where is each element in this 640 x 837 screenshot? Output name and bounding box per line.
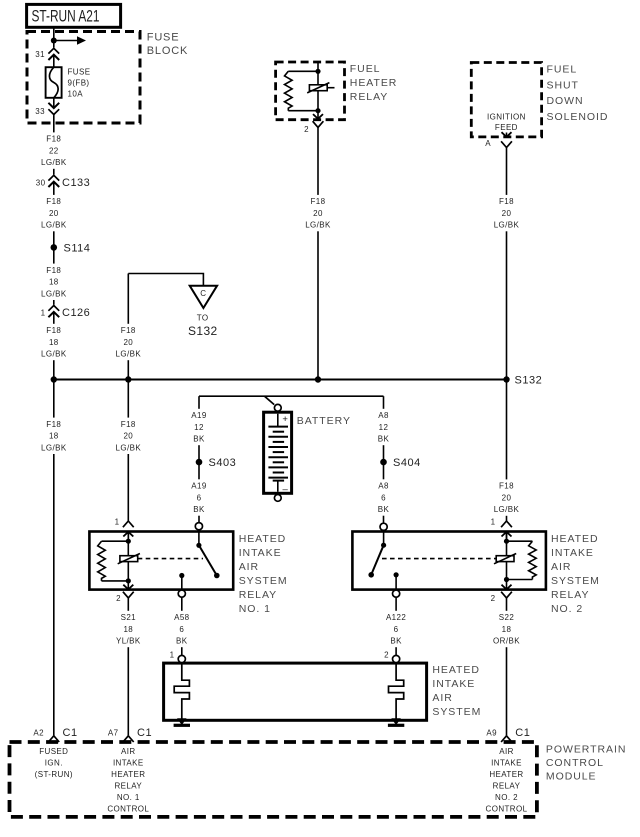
svg-text:S132: S132 xyxy=(515,375,543,387)
svg-text:C126: C126 xyxy=(62,307,90,319)
svg-text:20: 20 xyxy=(313,209,323,218)
svg-text:A: A xyxy=(485,139,491,148)
svg-text:A58: A58 xyxy=(174,613,190,622)
svg-text:LG/BK: LG/BK xyxy=(116,443,142,452)
svg-text:A7: A7 xyxy=(108,728,119,737)
svg-text:18: 18 xyxy=(49,278,59,287)
svg-text:FUEL: FUEL xyxy=(547,63,578,75)
svg-text:HEATER: HEATER xyxy=(489,770,523,779)
svg-text:MODULE: MODULE xyxy=(546,771,597,783)
svg-text:FUSED: FUSED xyxy=(39,747,68,756)
svg-text:20: 20 xyxy=(49,209,59,218)
svg-text:A19: A19 xyxy=(191,411,207,420)
svg-text:6: 6 xyxy=(197,493,202,502)
svg-text:C133: C133 xyxy=(62,177,90,189)
svg-text:ST-RUN A21: ST-RUN A21 xyxy=(32,7,100,26)
svg-text:18: 18 xyxy=(123,625,133,634)
svg-text:LG/BK: LG/BK xyxy=(41,221,67,230)
svg-text:TO: TO xyxy=(197,314,209,323)
svg-text:1: 1 xyxy=(170,650,175,659)
svg-text:9(FB): 9(FB) xyxy=(68,79,90,88)
svg-text:2: 2 xyxy=(384,650,389,659)
svg-text:CONTROL: CONTROL xyxy=(107,804,149,813)
svg-text:LG/BK: LG/BK xyxy=(41,443,67,452)
svg-text:LG/BK: LG/BK xyxy=(494,221,520,230)
svg-text:SYSTEM: SYSTEM xyxy=(432,706,481,718)
svg-text:20: 20 xyxy=(502,493,512,502)
svg-text:INTAKE: INTAKE xyxy=(432,678,475,690)
svg-text:S403: S403 xyxy=(209,457,237,469)
svg-text:BK: BK xyxy=(193,505,205,514)
svg-text:A8: A8 xyxy=(378,482,389,491)
svg-text:SOLENOID: SOLENOID xyxy=(547,111,609,123)
svg-text:INTAKE: INTAKE xyxy=(551,547,594,559)
svg-text:A2: A2 xyxy=(33,728,44,737)
svg-text:HEATED: HEATED xyxy=(239,533,287,545)
svg-text:IGN.: IGN. xyxy=(45,758,63,767)
svg-text:AIR: AIR xyxy=(239,561,259,573)
svg-text:2: 2 xyxy=(116,594,121,603)
svg-text:18: 18 xyxy=(49,338,59,347)
svg-text:OR/BK: OR/BK xyxy=(493,637,520,646)
svg-text:YL/BK: YL/BK xyxy=(116,637,141,646)
svg-text:BK: BK xyxy=(390,637,402,646)
svg-text:LG/BK: LG/BK xyxy=(305,221,331,230)
svg-text:F18: F18 xyxy=(46,197,61,206)
svg-text:22: 22 xyxy=(49,146,59,155)
svg-text:HEATED: HEATED xyxy=(551,533,599,545)
svg-text:(ST-RUN): (ST-RUN) xyxy=(35,770,73,779)
svg-text:HEATED: HEATED xyxy=(432,664,480,676)
svg-text:6: 6 xyxy=(381,493,386,502)
svg-text:C: C xyxy=(200,289,206,298)
svg-text:C1: C1 xyxy=(515,727,530,739)
svg-text:10A: 10A xyxy=(68,89,84,98)
svg-text:LG/BK: LG/BK xyxy=(494,505,520,514)
svg-text:BATTERY: BATTERY xyxy=(297,415,351,427)
svg-text:DOWN: DOWN xyxy=(547,95,584,107)
svg-text:HEATER: HEATER xyxy=(111,770,145,779)
svg-text:2: 2 xyxy=(491,594,496,603)
svg-text:F18: F18 xyxy=(46,135,61,144)
svg-text:A122: A122 xyxy=(386,613,406,622)
svg-text:6: 6 xyxy=(179,625,184,634)
svg-text:A19: A19 xyxy=(191,482,207,491)
svg-text:12: 12 xyxy=(379,423,389,432)
svg-text:NO. 1: NO. 1 xyxy=(117,793,140,802)
svg-text:RELAY: RELAY xyxy=(114,781,142,790)
svg-text:BK: BK xyxy=(193,435,205,444)
svg-text:F18: F18 xyxy=(46,420,61,429)
svg-text:NO. 2: NO. 2 xyxy=(551,603,583,615)
svg-text:18: 18 xyxy=(502,625,512,634)
svg-text:–: – xyxy=(283,484,289,495)
svg-text:AIR: AIR xyxy=(432,692,452,704)
svg-text:A8: A8 xyxy=(378,411,389,420)
svg-text:RELAY: RELAY xyxy=(493,781,521,790)
svg-text:30: 30 xyxy=(36,178,46,187)
svg-text:A9: A9 xyxy=(486,728,497,737)
svg-text:BK: BK xyxy=(378,435,390,444)
svg-text:FEED: FEED xyxy=(495,123,518,132)
svg-text:F18: F18 xyxy=(121,420,136,429)
svg-text:S114: S114 xyxy=(64,242,91,254)
svg-text:BK: BK xyxy=(176,637,188,646)
svg-text:F18: F18 xyxy=(499,197,514,206)
svg-text:BK: BK xyxy=(378,505,390,514)
svg-text:20: 20 xyxy=(123,432,133,441)
svg-text:1: 1 xyxy=(41,308,46,317)
svg-text:FUSE: FUSE xyxy=(68,67,91,76)
svg-text:12: 12 xyxy=(194,423,204,432)
svg-text:LG/BK: LG/BK xyxy=(41,158,67,167)
svg-text:INTAKE: INTAKE xyxy=(239,547,282,559)
svg-text:INTAKE: INTAKE xyxy=(113,758,144,767)
svg-text:S132: S132 xyxy=(188,324,218,338)
svg-text:1: 1 xyxy=(115,517,120,526)
svg-text:C1: C1 xyxy=(63,727,78,739)
svg-text:CONTROL: CONTROL xyxy=(486,804,528,813)
svg-text:S22: S22 xyxy=(499,613,515,622)
svg-text:IGNITION: IGNITION xyxy=(487,112,526,121)
svg-text:S21: S21 xyxy=(121,613,137,622)
svg-text:POWERTRAIN: POWERTRAIN xyxy=(546,743,626,755)
svg-text:RELAY: RELAY xyxy=(239,589,277,601)
svg-text:18: 18 xyxy=(49,432,59,441)
svg-text:AIR: AIR xyxy=(499,747,514,756)
svg-text:1: 1 xyxy=(491,517,496,526)
svg-text:C1: C1 xyxy=(137,727,152,739)
svg-text:HEATER: HEATER xyxy=(350,77,398,89)
svg-text:F18: F18 xyxy=(121,326,136,335)
svg-text:AIR: AIR xyxy=(121,747,136,756)
svg-text:F18: F18 xyxy=(46,266,61,275)
svg-text:F18: F18 xyxy=(499,482,514,491)
svg-text:LG/BK: LG/BK xyxy=(116,350,142,359)
svg-text:RELAY: RELAY xyxy=(551,589,589,601)
svg-text:SYSTEM: SYSTEM xyxy=(551,575,600,587)
svg-text:NO. 2: NO. 2 xyxy=(495,793,518,802)
svg-text:NO. 1: NO. 1 xyxy=(239,603,271,615)
svg-text:SYSTEM: SYSTEM xyxy=(239,575,288,587)
svg-text:S404: S404 xyxy=(393,457,421,469)
svg-text:+: + xyxy=(282,414,288,425)
svg-text:CONTROL: CONTROL xyxy=(546,757,604,769)
svg-text:RELAY: RELAY xyxy=(350,91,388,103)
svg-text:LG/BK: LG/BK xyxy=(41,289,67,298)
svg-text:SHUT: SHUT xyxy=(547,79,579,91)
svg-text:BLOCK: BLOCK xyxy=(147,45,188,57)
svg-text:6: 6 xyxy=(394,625,399,634)
svg-text:FUEL: FUEL xyxy=(350,63,381,75)
svg-text:F18: F18 xyxy=(46,326,61,335)
svg-text:33: 33 xyxy=(35,107,45,116)
svg-text:FUSE: FUSE xyxy=(147,32,180,44)
svg-text:INTAKE: INTAKE xyxy=(491,758,522,767)
svg-text:LG/BK: LG/BK xyxy=(41,350,67,359)
svg-text:F18: F18 xyxy=(311,197,326,206)
svg-text:31: 31 xyxy=(35,50,45,59)
svg-text:AIR: AIR xyxy=(551,561,571,573)
svg-text:20: 20 xyxy=(123,338,133,347)
svg-text:20: 20 xyxy=(502,209,512,218)
svg-text:2: 2 xyxy=(304,125,309,134)
